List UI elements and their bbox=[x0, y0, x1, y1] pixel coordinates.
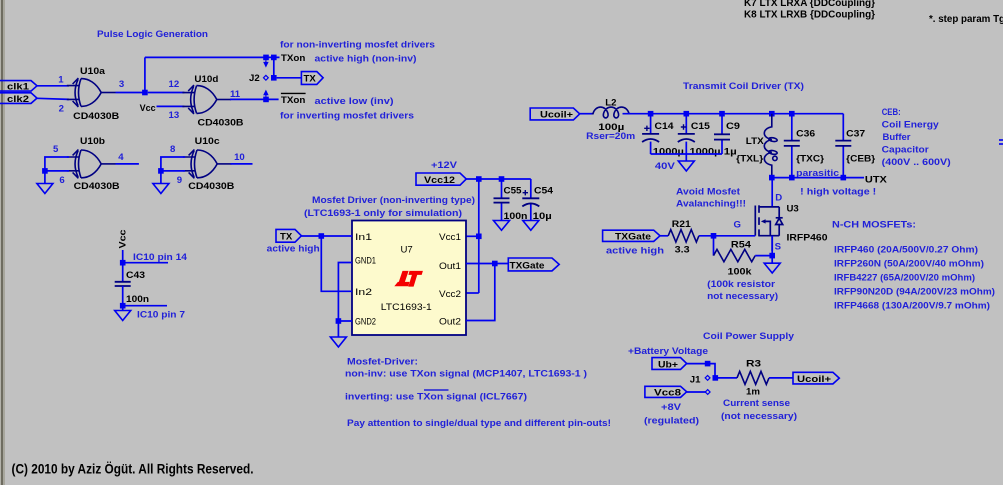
wire TX to In1 bbox=[301, 235, 352, 237]
IC U7 LTC1693-1 body bbox=[352, 221, 466, 336]
port flag clk1 bbox=[0, 81, 37, 92]
svg-text:U10d: U10d bbox=[194, 74, 218, 85]
port flag Vcc8 bbox=[645, 386, 687, 397]
port flag Ucoil+ (feed) bbox=[530, 108, 580, 120]
node junction LTX top bbox=[769, 111, 775, 117]
svg-text:TXon: TXon bbox=[281, 95, 306, 106]
op-gate U10a XOR CD4030B bbox=[67, 78, 116, 107]
jumper J2 pin diamond bbox=[263, 75, 268, 80]
transistor U3 N-MOSFET bbox=[755, 205, 782, 251]
wire drain from rail bbox=[771, 178, 773, 208]
svg-text:(regulated): (regulated) bbox=[644, 416, 699, 427]
node junction U10b inputs bbox=[42, 168, 48, 174]
svg-text:4: 4 bbox=[118, 152, 124, 163]
capacitor C37 bbox=[842, 114, 844, 178]
svg-text:In1: In1 bbox=[355, 232, 372, 243]
svg-text:Vcc12: Vcc12 bbox=[424, 175, 455, 186]
svg-text:IRFP260N (50A/200V/40 mOhm): IRFP260N (50A/200V/40 mOhm) bbox=[834, 259, 984, 270]
svg-text:{TXL}: {TXL} bbox=[736, 154, 763, 165]
svg-text:clk2: clk2 bbox=[7, 94, 29, 105]
svg-text:TX: TX bbox=[280, 232, 293, 243]
cut-off symbol at right edge bbox=[999, 140, 1003, 144]
svg-text:Vcc: Vcc bbox=[118, 229, 129, 249]
svg-text:100k: 100k bbox=[728, 267, 753, 278]
node junction U10c inputs bbox=[158, 168, 164, 174]
wire Vcc1 stub bbox=[466, 235, 479, 237]
node junction LTX bottom bbox=[769, 175, 775, 181]
svg-text:{CEB}: {CEB} bbox=[846, 154, 875, 165]
svg-text:9: 9 bbox=[177, 175, 182, 186]
node junction Out1/Out2 tie bbox=[492, 261, 498, 267]
svg-text:40V: 40V bbox=[655, 161, 676, 172]
svg-text:for inverting mosfet drivers: for inverting mosfet drivers bbox=[280, 111, 414, 122]
comment: CEB explanation bbox=[882, 107, 951, 168]
node junction J2 center bbox=[271, 75, 277, 81]
svg-text:Vcc8: Vcc8 bbox=[654, 388, 682, 399]
svg-text:C54: C54 bbox=[534, 186, 554, 197]
port flag Vcc12 bbox=[416, 173, 466, 185]
svg-text:LTC1693-1: LTC1693-1 bbox=[381, 302, 432, 313]
inductor LTX bbox=[764, 114, 777, 178]
svg-text:LTX: LTX bbox=[746, 136, 765, 147]
svg-text:J1: J1 bbox=[690, 374, 701, 385]
op-gate U10d XOR CD4030B bbox=[182, 85, 231, 114]
svg-text:Out2: Out2 bbox=[439, 317, 461, 328]
svg-text:TXGate: TXGate bbox=[510, 260, 545, 271]
ground at U10b bbox=[37, 184, 53, 194]
svg-text:Capacitor: Capacitor bbox=[882, 144, 929, 155]
ground at C43 bbox=[115, 311, 131, 321]
svg-text:1000µ: 1000µ bbox=[653, 146, 684, 157]
mosfet body arrow bbox=[761, 219, 766, 223]
svg-text:TXGate: TXGate bbox=[615, 232, 651, 243]
svg-text:IRFB4227 (65A/200V/20 mOhm): IRFB4227 (65A/200V/20 mOhm) bbox=[834, 273, 975, 284]
resistor R3 bbox=[737, 371, 769, 384]
wire U10d output to TXon-bar label bbox=[230, 98, 279, 100]
svg-text:Out1: Out1 bbox=[439, 261, 461, 272]
ground at U3 source bbox=[764, 263, 780, 273]
jumper J1 open pin diamond (Vcc8) bbox=[705, 390, 710, 395]
svg-text:U7: U7 bbox=[401, 245, 413, 256]
svg-text:L2: L2 bbox=[605, 97, 616, 108]
svg-text:Ub+: Ub+ bbox=[658, 359, 678, 370]
inductor L2 bbox=[592, 107, 630, 118]
port flag TX (driver input) bbox=[276, 229, 301, 242]
svg-text:R54: R54 bbox=[731, 240, 752, 251]
capacitor C36 bbox=[791, 114, 793, 178]
svg-text:non-inv: use TXon signal (MCP1: non-inv: use TXon signal (MCP1407, LTC16… bbox=[345, 369, 587, 380]
wire Ucoil+ to L2 bbox=[580, 113, 593, 115]
node junction TXon-bar wire bbox=[263, 97, 269, 103]
svg-text:(100k resistor: (100k resistor bbox=[707, 279, 775, 290]
svg-text:C37: C37 bbox=[846, 128, 865, 139]
svg-text:active high (non-inv): active high (non-inv) bbox=[315, 54, 417, 65]
resistor R54 bbox=[714, 249, 756, 261]
port flag TXGate (driver stage input) bbox=[603, 230, 660, 241]
port flag TX (jumper output) bbox=[301, 72, 323, 85]
svg-text:3.3: 3.3 bbox=[675, 244, 690, 255]
svg-text:IRFP460: IRFP460 bbox=[787, 232, 828, 243]
svg-text:Pulse Logic Generation: Pulse Logic Generation bbox=[97, 29, 208, 40]
node junction C55 branch bbox=[499, 176, 505, 182]
wire IC10 pin 14 stub bbox=[123, 262, 168, 264]
svg-text:clk1: clk1 bbox=[7, 82, 30, 93]
ground at C14/C15/C9 bbox=[678, 161, 694, 171]
svg-text:Ucoil+: Ucoil+ bbox=[797, 374, 831, 385]
svg-text:! high voltage !: ! high voltage ! bbox=[800, 187, 876, 198]
svg-text:Ucoil+: Ucoil+ bbox=[540, 110, 573, 121]
svg-text:C15: C15 bbox=[691, 121, 711, 132]
svg-text:active high: active high bbox=[606, 246, 664, 257]
wire C43 bottom bbox=[122, 286, 124, 311]
svg-text:U10a: U10a bbox=[80, 66, 106, 77]
svg-text:1: 1 bbox=[58, 74, 64, 85]
svg-text:Vcc: Vcc bbox=[140, 103, 157, 114]
plus sign C14 bbox=[644, 126, 649, 131]
capacitor C15 polarized bbox=[685, 114, 687, 154]
wire R54 to source node bbox=[755, 255, 772, 257]
node junction C36 bottom bbox=[789, 175, 795, 181]
wire Vcc2 stub bbox=[466, 292, 479, 294]
wire junction up to TXon rail bbox=[144, 57, 146, 92]
wire clk2 to U10a pin2 bbox=[37, 98, 69, 99]
node junction Vcc1 pin bbox=[476, 234, 482, 240]
ground at U10c bbox=[153, 184, 169, 194]
port flag Ub+ bbox=[652, 358, 687, 370]
wire bottom rail UTX bbox=[772, 177, 864, 179]
port flag clk2 bbox=[0, 93, 37, 104]
wire TXon rail horizontal bbox=[145, 56, 280, 58]
wire Out1 to TXGate flag bbox=[466, 263, 508, 265]
node junction GND2 bbox=[336, 318, 342, 324]
svg-text:Pay attention to single/dual t: Pay attention to single/dual type and di… bbox=[347, 418, 611, 429]
wire clk1 to U10a pin1 bbox=[37, 85, 69, 87]
svg-text:CD4030B: CD4030B bbox=[74, 181, 120, 192]
svg-text:Buffer: Buffer bbox=[883, 132, 911, 143]
window left border bbox=[0, 0, 5, 485]
capacitor C9 bbox=[721, 114, 723, 154]
svg-text:+12V: +12V bbox=[431, 160, 458, 171]
svg-text:U10b: U10b bbox=[80, 136, 105, 147]
svg-text:Coil Power Supply: Coil Power Supply bbox=[703, 331, 795, 342]
wire source to ground bbox=[771, 236, 773, 264]
wire U10c inputs tie bbox=[161, 157, 185, 184]
wire junction to U10d pin12 bbox=[148, 92, 185, 94]
svg-text:U3: U3 bbox=[787, 204, 799, 215]
capacitor C43 bbox=[115, 282, 131, 286]
svg-text:2: 2 bbox=[59, 103, 64, 114]
wire J2 vertical bbox=[273, 57, 275, 77]
node junction Vcc1 branch bbox=[476, 176, 482, 182]
svg-text:for non-inverting mosfet drive: for non-inverting mosfet drivers bbox=[280, 40, 435, 51]
svg-text:TXon: TXon bbox=[281, 53, 306, 64]
svg-text:Current sense: Current sense bbox=[723, 398, 790, 409]
svg-text:C43: C43 bbox=[126, 270, 145, 281]
svg-text:C9: C9 bbox=[726, 121, 740, 132]
svg-text:11: 11 bbox=[230, 89, 241, 100]
svg-text:K8 LTX LRXB {DDCoupling}: K8 LTX LRXB {DDCoupling} bbox=[744, 10, 875, 21]
port flag Ucoil+ (output) bbox=[793, 372, 839, 384]
svg-text:R21: R21 bbox=[672, 219, 692, 230]
wire J1 to R3 bbox=[715, 377, 737, 379]
svg-text:Mosfet Driver (non-inverting t: Mosfet Driver (non-inverting type) bbox=[312, 195, 475, 206]
svg-text:(not necessary): (not necessary) bbox=[721, 411, 797, 422]
wire TXGate to R21 bbox=[660, 235, 668, 237]
node junction source/R54 bbox=[769, 253, 775, 259]
svg-text:5: 5 bbox=[53, 144, 59, 155]
svg-text:In2: In2 bbox=[355, 287, 372, 298]
svg-text:+Battery Voltage: +Battery Voltage bbox=[628, 346, 708, 357]
node junction J1 top bbox=[705, 361, 711, 367]
svg-text:GND1: GND1 bbox=[355, 256, 376, 267]
wire Vcc to U10d pin13 bbox=[157, 105, 185, 107]
comment: Avoid Mosfet Avalanching!!! bbox=[676, 187, 746, 210]
svg-text:GND2: GND2 bbox=[355, 317, 376, 328]
jumper J2 arrow up from TXon-bar wire bbox=[264, 91, 268, 97]
node junction TXon rail at J2 bbox=[271, 55, 277, 61]
node junction C14 top bbox=[648, 111, 654, 117]
svg-text:3: 3 bbox=[119, 79, 124, 90]
capacitor C54 polarized bbox=[530, 179, 532, 221]
jumper J1 pin diamond bbox=[705, 375, 710, 380]
svg-text:Avalanching!!!: Avalanching!!! bbox=[676, 199, 746, 210]
svg-text:Transmit Coil Driver (TX): Transmit Coil Driver (TX) bbox=[683, 81, 804, 92]
svg-text:1m: 1m bbox=[746, 386, 760, 397]
node junction In1/In2 tie bbox=[319, 233, 325, 239]
net label TXon-bar with overline bbox=[281, 93, 306, 106]
svg-text:C14: C14 bbox=[655, 121, 675, 132]
wire U10b output bbox=[116, 163, 139, 165]
svg-text:IC10 pin 14: IC10 pin 14 bbox=[133, 252, 188, 263]
svg-text:D: D bbox=[775, 193, 782, 204]
wire GND1 to GND2 bbox=[338, 263, 352, 338]
logo Linear Technology LT bbox=[394, 271, 423, 287]
plus sign C54 bbox=[523, 190, 528, 195]
wire R3 to Ucoil+ flag bbox=[769, 377, 793, 379]
svg-text:inverting: use TXon signal (IC: inverting: use TXon signal (ICL7667) bbox=[345, 392, 527, 403]
svg-text:6: 6 bbox=[59, 175, 64, 186]
svg-text:Avoid Mosfet: Avoid Mosfet bbox=[676, 187, 741, 198]
plus sign C15 bbox=[681, 124, 686, 129]
wire Vcc down to C43 bbox=[122, 250, 124, 282]
comment: inverting: use TXon-bar signal (ICL7667) bbox=[345, 390, 527, 403]
wire U10b inputs tie bbox=[45, 157, 69, 184]
svg-text:+8V: +8V bbox=[661, 402, 682, 413]
capacitor C55 bbox=[501, 179, 503, 221]
svg-text:J2: J2 bbox=[249, 73, 260, 84]
port flag TXGate (driver output) bbox=[508, 258, 559, 271]
svg-text:Vcc1: Vcc1 bbox=[439, 232, 461, 243]
svg-text:C36: C36 bbox=[796, 128, 815, 139]
svg-text:G: G bbox=[734, 220, 741, 231]
svg-text:R3: R3 bbox=[746, 359, 761, 370]
svg-text:IRFP4668 (130A/200V/9.7 mOhm): IRFP4668 (130A/200V/9.7 mOhm) bbox=[834, 301, 990, 312]
wire Ub+ to J1 bbox=[687, 364, 715, 378]
node junction J1 out bbox=[713, 375, 719, 381]
svg-text:Rser=20m: Rser=20m bbox=[586, 131, 635, 142]
wire U10a output to junction bbox=[116, 92, 145, 94]
svg-text:(LTC1693-1 only for simulation: (LTC1693-1 only for simulation) bbox=[304, 208, 462, 219]
ground at U7 bbox=[330, 337, 346, 347]
svg-text:{TXC}: {TXC} bbox=[796, 154, 824, 165]
jumper J2 arrow down from TXon rail bbox=[264, 60, 268, 66]
svg-text:10: 10 bbox=[234, 152, 245, 163]
svg-text:Vcc2: Vcc2 bbox=[439, 289, 461, 300]
svg-text:IRFP460 (20A/500V/0.27 Ohm): IRFP460 (20A/500V/0.27 Ohm) bbox=[834, 245, 978, 256]
capacitor C14 polarized bbox=[650, 114, 652, 154]
svg-text:CD4030B: CD4030B bbox=[73, 111, 119, 122]
svg-text:K7 LTX LRXA {DDCoupling}: K7 LTX LRXA {DDCoupling} bbox=[744, 0, 875, 9]
wire Vcc vertical to Vcc1/Vcc2 bbox=[478, 179, 480, 293]
svg-text:U10c: U10c bbox=[195, 136, 221, 147]
wire IC10 pin 7 stub bbox=[123, 305, 167, 307]
svg-text:UTX: UTX bbox=[865, 175, 888, 186]
wire U10c output bbox=[231, 163, 253, 165]
ground at C54 bbox=[523, 221, 539, 231]
node junction at U10a output bbox=[142, 90, 148, 96]
svg-text:TX: TX bbox=[304, 74, 317, 85]
wire J2 to TX flag bbox=[277, 77, 302, 79]
wire caps bottom tie bbox=[651, 154, 722, 161]
resistor R21 bbox=[668, 230, 699, 242]
svg-text:1µ: 1µ bbox=[724, 146, 737, 157]
svg-text:CD4030B: CD4030B bbox=[188, 181, 234, 192]
svg-text:13: 13 bbox=[169, 110, 180, 121]
comment: (100k resistor not necessary) bbox=[707, 279, 778, 302]
svg-text:*. step param Tg: *. step param Tg bbox=[929, 14, 1003, 25]
svg-text:C55: C55 bbox=[504, 186, 523, 197]
svg-text:active low (inv): active low (inv) bbox=[315, 96, 394, 107]
svg-text:N-CH MOSFETs:: N-CH MOSFETs: bbox=[832, 220, 916, 231]
wire In1 junction down to In2 bbox=[321, 236, 352, 291]
svg-text:Coil Energy: Coil Energy bbox=[882, 119, 940, 130]
svg-text:IRFP90N20D (94A/200V/23 mOhm): IRFP90N20D (94A/200V/23 mOhm) bbox=[834, 287, 995, 298]
svg-text:100n: 100n bbox=[126, 294, 149, 305]
wire gate node down to R54 bbox=[713, 236, 715, 256]
node junction C9 top bbox=[719, 111, 725, 117]
wire top rail L2 to C37 bbox=[623, 113, 844, 115]
svg-text:not necessary): not necessary) bbox=[707, 291, 778, 302]
svg-text:IC10 pin 7: IC10 pin 7 bbox=[137, 310, 185, 321]
svg-text:12: 12 bbox=[169, 79, 180, 90]
ground at C55 bbox=[494, 221, 510, 231]
svg-text:CEB:: CEB: bbox=[882, 107, 901, 118]
node junction gate/R54 bbox=[711, 233, 717, 239]
svg-text:active high: active high bbox=[267, 244, 320, 255]
svg-text:CD4030B: CD4030B bbox=[198, 118, 244, 129]
wire Out2 tie vertical bbox=[466, 264, 495, 321]
node junction TXon rail left bbox=[263, 55, 269, 61]
wire R21 to gate bbox=[699, 235, 755, 237]
op-gate U10b XOR CD4030B bbox=[67, 150, 116, 179]
svg-text:(C) 2010 by Aziz Ögüt. All Rig: (C) 2010 by Aziz Ögüt. All Rights Reserv… bbox=[12, 462, 254, 477]
svg-text:(400V .. 600V): (400V .. 600V) bbox=[882, 157, 951, 168]
node junction C36 top bbox=[789, 111, 795, 117]
wire Vcc8 stub bbox=[687, 391, 706, 393]
svg-text:S: S bbox=[775, 242, 782, 253]
svg-text:Mosfet-Driver:: Mosfet-Driver: bbox=[347, 357, 418, 368]
wire Vcc12 rail to C54 bbox=[466, 178, 531, 180]
svg-text:8: 8 bbox=[170, 144, 176, 155]
node junction IC10 pin 14 bbox=[120, 260, 126, 266]
op-gate U10c XOR CD4030B bbox=[183, 150, 232, 179]
svg-text:1000µ: 1000µ bbox=[690, 146, 721, 157]
node junction C15 top bbox=[684, 111, 690, 117]
node junction C37 bottom bbox=[841, 175, 847, 181]
node junction IC10 pin 7 bbox=[120, 303, 126, 309]
